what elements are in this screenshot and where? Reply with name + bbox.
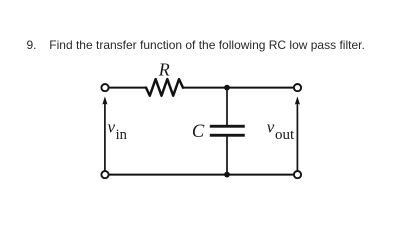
junction dot top node	[224, 85, 230, 91]
voltage arrow vin line	[104, 103, 106, 171]
svg-text:v: v	[267, 117, 275, 136]
capacitor C bottom lead wire	[226, 137, 228, 175]
wire top-left: terminal to resistor	[110, 87, 146, 89]
wire bottom	[110, 174, 293, 176]
svg-text:C: C	[192, 122, 205, 142]
arrowhead vin	[102, 96, 107, 104]
capacitor C bottom plate	[210, 134, 245, 137]
capacitor C top plate	[210, 125, 245, 128]
terminal top-right	[294, 84, 301, 91]
voltage arrow vout line	[296, 103, 298, 171]
arrowhead vout	[295, 96, 300, 104]
terminal top-left	[101, 84, 108, 91]
problem statement text	[49, 38, 365, 52]
svg-text:in: in	[116, 127, 128, 143]
junction dot bottom node	[224, 172, 230, 178]
terminal bottom-right	[294, 171, 301, 178]
terminal bottom-left	[101, 171, 108, 178]
resistor R zigzag	[146, 79, 183, 96]
svg-text:out: out	[275, 127, 295, 143]
capacitor C top lead wire	[226, 88, 228, 125]
svg-text:v: v	[108, 117, 116, 136]
problem number 9.	[27, 38, 37, 52]
svg-text:R: R	[158, 59, 170, 79]
wire top-right: resistor to terminal	[183, 87, 293, 89]
